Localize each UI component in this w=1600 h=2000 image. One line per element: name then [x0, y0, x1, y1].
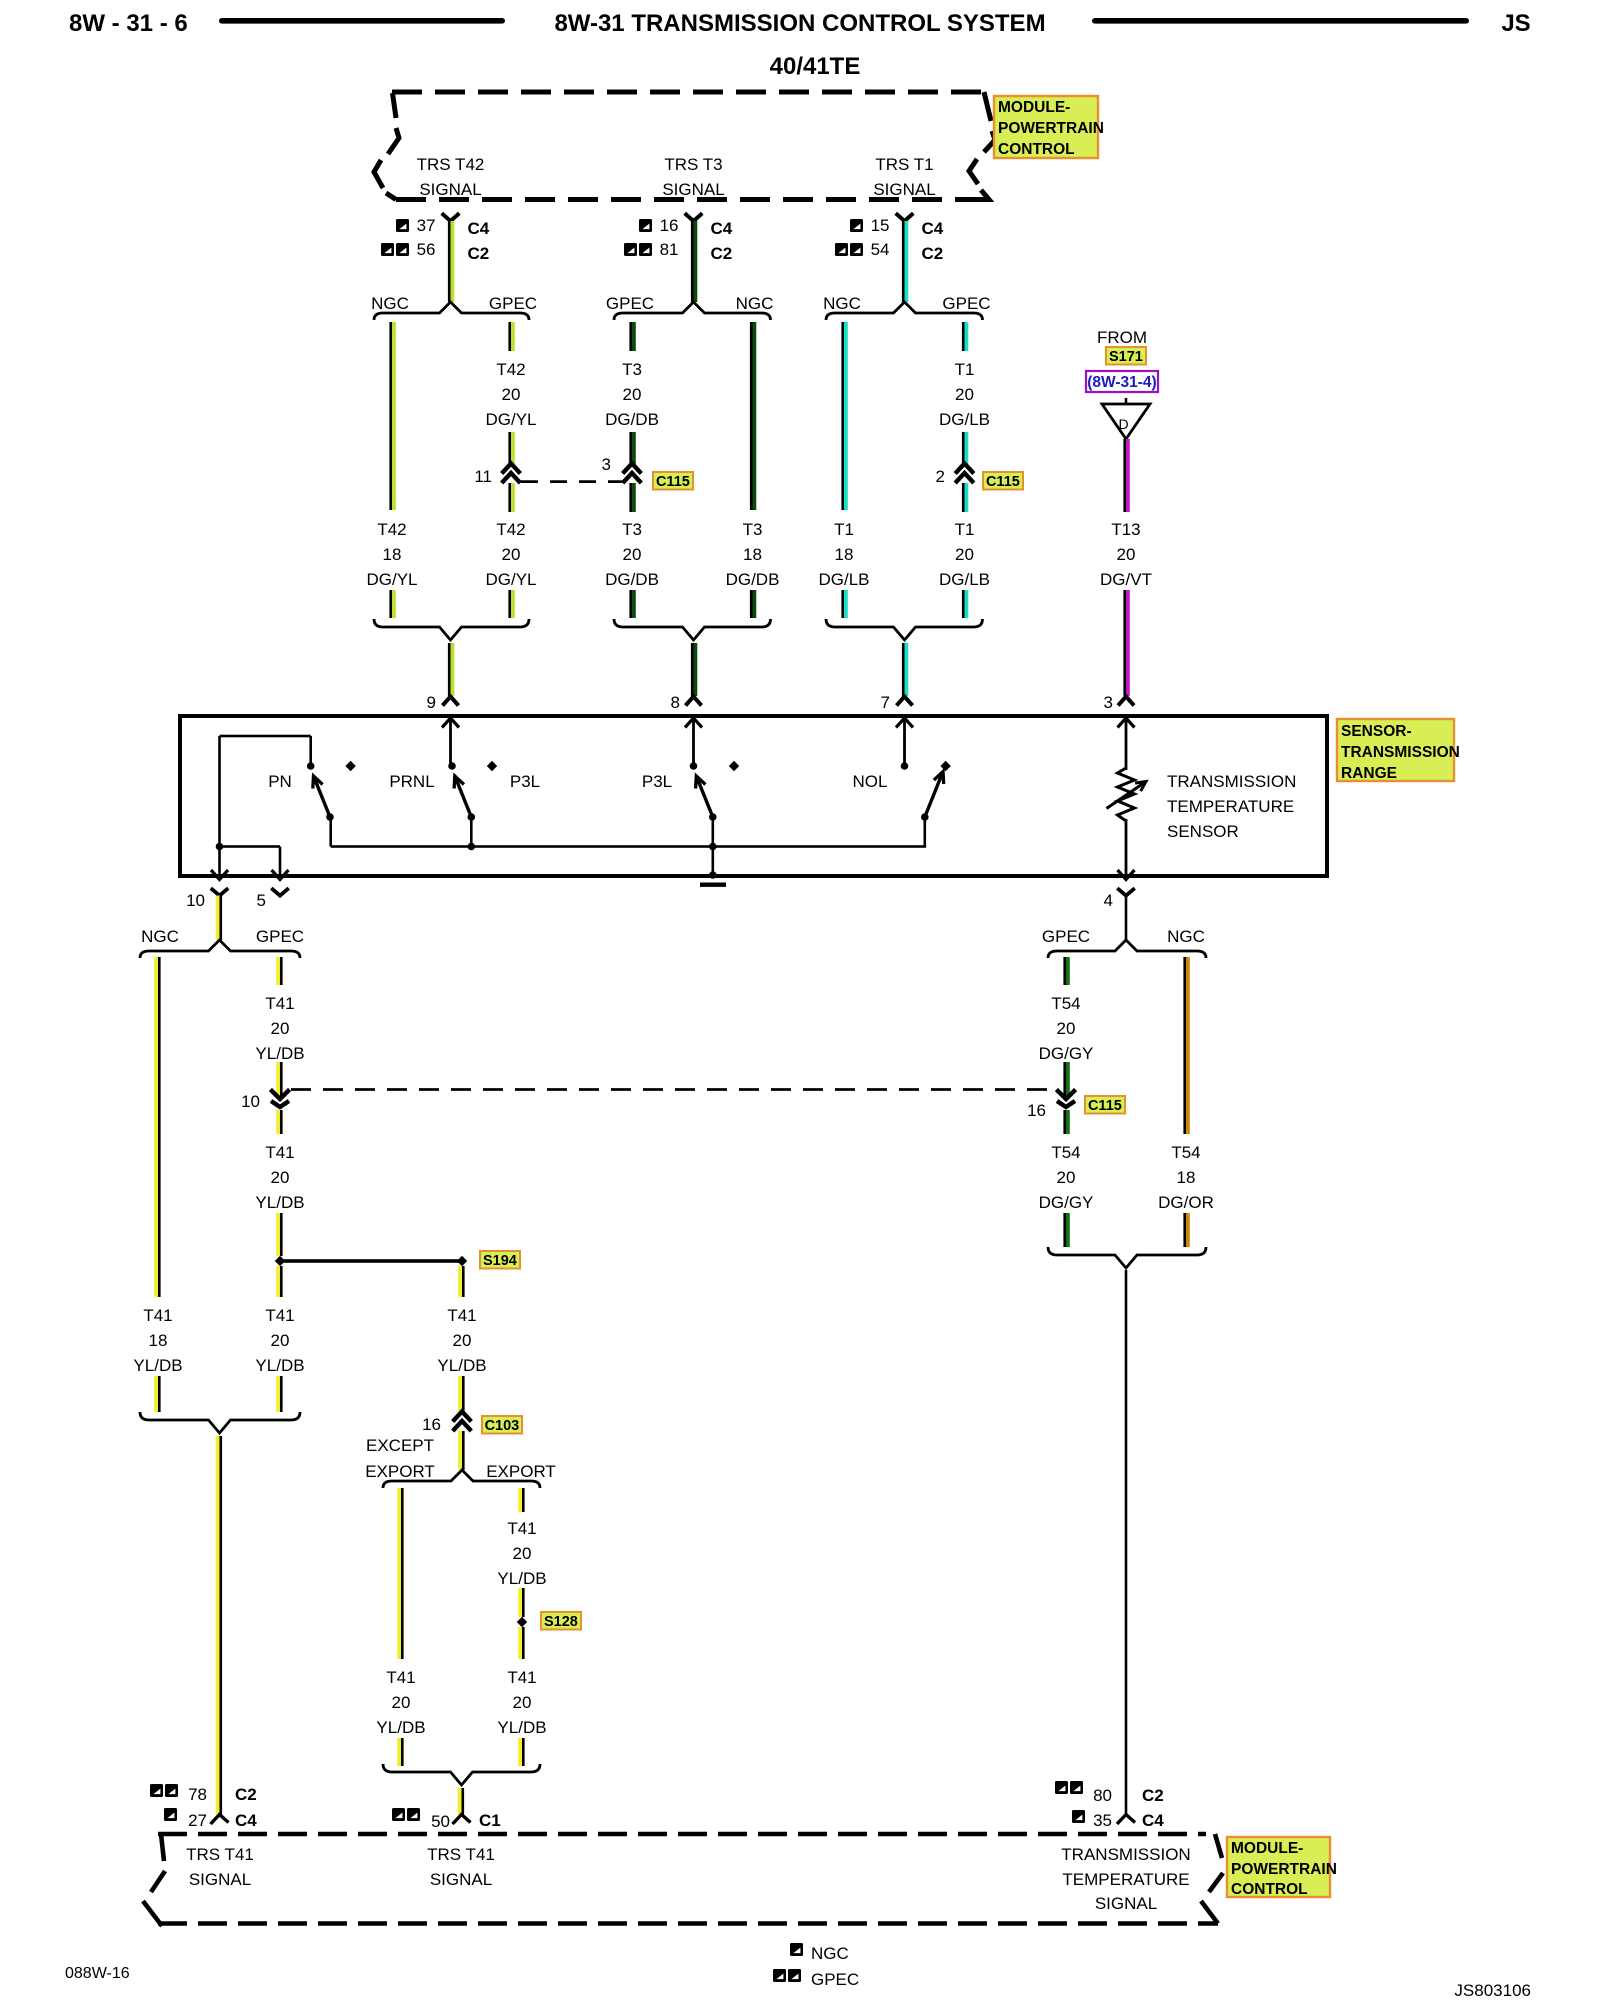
svg-text:NGC: NGC	[141, 927, 179, 946]
merged wire to sensor terminal	[691, 643, 697, 696]
terminal 27 (female)	[211, 1815, 229, 1825]
header code JS	[1501, 10, 1530, 37]
label MODULE-POWERTRAIN CONTROL (bottom)	[1227, 1837, 1337, 1898]
svg-text:RANGE: RANGE	[1341, 765, 1397, 782]
terminal 35 (female)	[1117, 1815, 1135, 1825]
svg-text:TRANSMISSION: TRANSMISSION	[1341, 744, 1460, 761]
label T54 20 DG/GY (upper)	[1039, 994, 1094, 1063]
splice split NGC/GPEC	[823, 294, 990, 320]
svg-text:SIGNAL: SIGNAL	[1095, 1894, 1157, 1913]
page title	[554, 10, 1045, 80]
wire T1 GPEC into C115	[962, 432, 968, 464]
label T41 20 YL/DB (below C115)	[255, 1143, 304, 1212]
wire T41 to C1 terminal 50	[458, 1788, 464, 1815]
svg-text:POWERTRAIN: POWERTRAIN	[1231, 1861, 1337, 1878]
label T41 20 YL/DB (GPEC lower)	[255, 1306, 304, 1375]
svg-text:20: 20	[513, 1693, 532, 1712]
svg-text:T3: T3	[622, 520, 642, 539]
svg-text:T54: T54	[1051, 994, 1080, 1013]
svg-text:8W-31 TRANSMISSION CONTROL SYS: 8W-31 TRANSMISSION CONTROL SYSTEM	[554, 10, 1045, 37]
connector C115 cavity 16	[1027, 1090, 1076, 1121]
svg-text:DG/DB: DG/DB	[605, 410, 659, 429]
svg-text:CONTROL: CONTROL	[1231, 1881, 1308, 1898]
svg-text:GPEC: GPEC	[606, 294, 654, 313]
wire stub left above merge	[629, 590, 635, 618]
svg-text:EXPORT: EXPORT	[365, 1462, 435, 1481]
svg-text:DG/YL: DG/YL	[485, 570, 536, 589]
svg-text:16: 16	[1027, 1101, 1046, 1120]
connector pin 37/56 icons and C4/C2	[381, 216, 490, 263]
svg-text:T54: T54	[1171, 1143, 1200, 1162]
sensor - transmission range (box)	[180, 716, 1327, 876]
svg-text:T41: T41	[143, 1306, 172, 1325]
label TRANSMISSION TEMPERATURE SENSOR	[1167, 772, 1296, 841]
svg-text:TRS T41: TRS T41	[427, 1845, 495, 1864]
footer sheet number	[65, 1965, 130, 1982]
svg-text:54: 54	[871, 240, 890, 259]
node TRANSMISSION TEMPERATURE SIGNAL	[1061, 1845, 1190, 1913]
terminal 3	[1104, 693, 1135, 728]
wire stub export above merge	[518, 1738, 524, 1766]
wire to transmission temperature signal terminal 35	[1125, 1270, 1128, 1815]
label S194	[480, 1251, 520, 1269]
wire T41 to TRS T41 SIGNAL (C2/C4)	[216, 1436, 222, 1815]
svg-text:C115: C115	[986, 474, 1020, 490]
svg-text:088W-16: 088W-16	[65, 1965, 130, 1982]
svg-text:15: 15	[871, 216, 890, 235]
svg-text:NGC: NGC	[371, 294, 409, 313]
svg-text:POWERTRAIN: POWERTRAIN	[998, 120, 1104, 137]
connector pins 80 C2	[1055, 1781, 1164, 1805]
node TRS T41 SIGNAL (left)	[186, 1845, 254, 1889]
wire T41 below S194 (left)	[276, 1266, 282, 1297]
svg-text:P3L: P3L	[510, 772, 540, 791]
svg-text:C103: C103	[485, 1418, 520, 1434]
svg-text:S171: S171	[1109, 349, 1143, 365]
node FROM S171 (8W-31-4)	[1097, 328, 1147, 347]
wire T41 export stub	[518, 1488, 524, 1512]
wire T41 GPEC into C115	[276, 1062, 282, 1096]
wire T3 GPEC below C115	[629, 483, 635, 512]
wire stub GPEC above right merge	[1063, 1213, 1069, 1247]
svg-text:20: 20	[955, 545, 974, 564]
svg-text:50: 50	[431, 1812, 450, 1831]
svg-text:DG/LB: DG/LB	[939, 570, 990, 589]
label S128	[541, 1612, 581, 1630]
wire TRS T42 signal from module	[448, 221, 454, 302]
label EXPORT	[486, 1462, 556, 1481]
splice merge right pair	[1048, 1247, 1206, 1268]
wire T13 from triangle	[1123, 439, 1129, 512]
wire T41 below S128	[518, 1627, 524, 1659]
label T54 18 DG/OR	[1158, 1143, 1214, 1212]
wire T41 below S194 (branch to C103)	[458, 1266, 464, 1297]
svg-text:GPEC: GPEC	[256, 927, 304, 946]
svg-text:20: 20	[271, 1331, 290, 1350]
wire T41 below C103	[458, 1431, 464, 1470]
svg-text:20: 20	[623, 545, 642, 564]
svg-text:C115: C115	[1088, 1098, 1122, 1114]
wire TRS T3 signal from module	[691, 221, 697, 302]
svg-text:DG/GY: DG/GY	[1039, 1193, 1094, 1212]
svg-text:3: 3	[602, 455, 611, 474]
svg-text:YL/DB: YL/DB	[255, 1193, 304, 1212]
terminal (female) at module for TRS T3	[685, 213, 703, 221]
merged wire to sensor terminal	[448, 643, 454, 696]
wire stub GPEC above merge	[276, 1376, 282, 1412]
terminal 5	[257, 870, 289, 910]
label T42 18 DG/YL	[366, 520, 417, 589]
label C115 (T1)	[983, 472, 1023, 490]
svg-text:81: 81	[660, 240, 679, 259]
wire T42 GPEC below C115	[508, 483, 514, 512]
splice merge to single wire	[826, 619, 983, 640]
wire T41 except-export (long)	[397, 1488, 403, 1659]
node TRS T1 SIGNAL (in module)	[873, 155, 935, 199]
contact diamond (NOL alt, at arm tip)	[940, 761, 950, 771]
wire stub right above merge	[750, 590, 756, 618]
wire T3 GPEC into C115	[629, 432, 635, 464]
svg-text:T41: T41	[265, 1143, 294, 1162]
connector C115 cavity 11	[474, 464, 520, 487]
svg-text:JS: JS	[1501, 10, 1530, 37]
label T41 20 YL/DB (export upper)	[497, 1519, 546, 1588]
svg-text:NGC: NGC	[736, 294, 774, 313]
wire T41 export to S128	[518, 1588, 524, 1617]
svg-text:TRANSMISSION: TRANSMISSION	[1167, 772, 1296, 791]
label C115 (lower)	[1085, 1096, 1125, 1114]
svg-text:FROM: FROM	[1097, 328, 1147, 347]
dashed tie between C115 cavities 10 and 16	[291, 1088, 1056, 1091]
svg-text:TRS T1: TRS T1	[875, 155, 933, 174]
connector pin 16/81 icons and C4/C2	[624, 216, 733, 263]
module - powertrain control (top dashed outline)	[374, 92, 995, 200]
label T3 18 DG/DB	[726, 520, 780, 589]
svg-text:T41: T41	[447, 1306, 476, 1325]
svg-text:S128: S128	[544, 1614, 578, 1630]
svg-text:T41: T41	[386, 1668, 415, 1687]
svg-text:35: 35	[1093, 1811, 1112, 1830]
svg-text:C4: C4	[468, 219, 490, 238]
svg-text:C2: C2	[711, 244, 733, 263]
wire stub except-export above merge	[397, 1738, 403, 1766]
svg-text:SIGNAL: SIGNAL	[419, 180, 481, 199]
terminal (female) at module for TRS T1	[896, 213, 914, 221]
svg-text:C2: C2	[468, 244, 490, 263]
svg-text:GPEC: GPEC	[489, 294, 537, 313]
splice split GPEC/NGC	[606, 294, 773, 320]
splice merge to single wire	[374, 619, 529, 640]
svg-text:EXPORT: EXPORT	[486, 1462, 556, 1481]
node P3L label	[510, 772, 540, 791]
wire T13 to sensor terminal 3	[1123, 590, 1129, 696]
svg-text:SENSOR-: SENSOR-	[1341, 723, 1412, 740]
wire T1 GPEC below C115	[962, 483, 968, 512]
svg-text:YL/DB: YL/DB	[255, 1044, 304, 1063]
svg-text:DG/VT: DG/VT	[1100, 570, 1152, 589]
svg-text:80: 80	[1093, 1786, 1112, 1805]
terminal 50 (female)	[453, 1815, 471, 1825]
svg-text:NGC: NGC	[823, 294, 861, 313]
splice split EXCEPT EXPORT / EXPORT	[383, 1470, 540, 1488]
splice split NGC/GPEC (left lower)	[140, 927, 304, 958]
label T41 20 YL/DB (except-export lower)	[376, 1668, 425, 1737]
svg-text:DG/LB: DG/LB	[818, 570, 869, 589]
connector C115 cavity 10	[241, 1090, 290, 1112]
wire TRS T1 GPEC branch upper stub	[962, 322, 968, 351]
svg-text:T3: T3	[622, 360, 642, 379]
svg-text:20: 20	[623, 385, 642, 404]
label T1 18 DG/LB	[818, 520, 869, 589]
connector C115 cavity 2	[936, 464, 974, 487]
svg-text:NGC: NGC	[811, 1944, 849, 1963]
svg-text:JS803106: JS803106	[1454, 1981, 1531, 2000]
svg-text:37: 37	[417, 216, 436, 235]
svg-text:YL/DB: YL/DB	[255, 1356, 304, 1375]
svg-text:T13: T13	[1111, 520, 1140, 539]
splice S128	[517, 1617, 527, 1627]
wire T54 GPEC into C115	[1063, 1062, 1069, 1096]
svg-text:DG/LB: DG/LB	[939, 410, 990, 429]
svg-text:SIGNAL: SIGNAL	[873, 180, 935, 199]
svg-text:MODULE-: MODULE-	[1231, 1840, 1303, 1857]
svg-text:YL/DB: YL/DB	[497, 1718, 546, 1737]
wire stub right above merge	[962, 590, 968, 618]
label T1 20 DG/LB (above C115)	[939, 360, 990, 429]
svg-text:7: 7	[881, 693, 890, 712]
svg-text:T41: T41	[507, 1668, 536, 1687]
splice split GPEC/NGC (right)	[1042, 927, 1206, 958]
transmission temperature sensor (variable resistor)	[1107, 718, 1147, 875]
dashed tie between C115 cavities 11 and 3	[521, 480, 622, 483]
wire TRS T42 GPEC branch upper stub	[508, 322, 514, 351]
svg-text:DG/YL: DG/YL	[366, 570, 417, 589]
splice merge left pair	[140, 1412, 300, 1433]
terminal 10	[186, 870, 228, 910]
terminal 4	[1104, 870, 1135, 925]
wire T54 GPEC below C115	[1063, 1110, 1069, 1134]
header rule left	[219, 18, 505, 24]
label T3 20 DG/DB	[605, 520, 659, 589]
svg-text:10: 10	[241, 1092, 260, 1111]
label C103	[482, 1416, 522, 1434]
wire T41 GPEC below C115	[276, 1110, 282, 1134]
wire stub left above merge	[841, 590, 847, 618]
svg-text:20: 20	[513, 1544, 532, 1563]
wire T41 into C103	[458, 1376, 464, 1412]
svg-text:20: 20	[502, 545, 521, 564]
node TRS T3 SIGNAL (in module)	[662, 155, 724, 199]
svg-text:18: 18	[835, 545, 854, 564]
svg-text:DG/OR: DG/OR	[1158, 1193, 1214, 1212]
svg-text:20: 20	[1117, 545, 1136, 564]
splice merge export pair	[383, 1764, 540, 1785]
off-page triangle D	[1102, 398, 1150, 439]
node TRS T41 SIGNAL (centre)	[427, 1845, 495, 1889]
svg-text:18: 18	[743, 545, 762, 564]
terminal (female) at module for TRS T42	[442, 213, 460, 221]
svg-text:40/41TE: 40/41TE	[770, 53, 861, 80]
label T13 20 DG/VT	[1100, 520, 1152, 589]
switch common bus	[331, 845, 926, 848]
svg-text:16: 16	[422, 1415, 441, 1434]
contact diamond (P3L alt)	[729, 761, 739, 771]
label T41 20 YL/DB (S194 branch)	[437, 1306, 486, 1375]
svg-text:T42: T42	[496, 520, 525, 539]
svg-text:18: 18	[1177, 1168, 1196, 1187]
connector C103 cavity 16	[422, 1412, 471, 1435]
svg-text:C2: C2	[922, 244, 944, 263]
splice split NGC/GPEC	[371, 294, 537, 320]
connector pins 35 C4	[1072, 1810, 1164, 1830]
svg-text:20: 20	[271, 1019, 290, 1038]
svg-text:NGC: NGC	[1167, 927, 1205, 946]
connector pins 78 C2	[150, 1784, 257, 1804]
svg-text:TRS T41: TRS T41	[186, 1845, 254, 1864]
footer drawing number	[1454, 1981, 1531, 2000]
svg-text:GPEC: GPEC	[942, 294, 990, 313]
svg-text:NOL: NOL	[853, 772, 888, 791]
svg-text:TEMPERATURE: TEMPERATURE	[1062, 1870, 1189, 1889]
svg-text:DG/DB: DG/DB	[605, 570, 659, 589]
svg-text:YL/DB: YL/DB	[133, 1356, 182, 1375]
wire TRS T3 NGC branch (18 ga)	[750, 322, 756, 510]
svg-text:TRANSMISSION: TRANSMISSION	[1061, 1845, 1190, 1864]
label T41 20 YL/DB (export lower)	[497, 1668, 546, 1737]
svg-text:D: D	[1118, 416, 1128, 432]
svg-text:T54: T54	[1051, 1143, 1080, 1162]
svg-text:C115: C115	[656, 474, 690, 490]
label C115 (upper)	[653, 472, 693, 490]
label EXCEPT EXPORT	[365, 1436, 435, 1481]
svg-text:YL/DB: YL/DB	[497, 1569, 546, 1588]
wire TRS T1 signal from module	[902, 221, 908, 302]
svg-text:20: 20	[955, 385, 974, 404]
wire T54 18 NGC (long)	[1183, 957, 1189, 1134]
wire T41 from terminal 10	[216, 896, 222, 941]
svg-text:3: 3	[1104, 693, 1113, 712]
svg-text:C4: C4	[922, 219, 944, 238]
svg-text:18: 18	[383, 545, 402, 564]
svg-text:S194: S194	[483, 1253, 517, 1269]
wire stub NGC above merge	[154, 1376, 160, 1412]
svg-text:11: 11	[474, 467, 492, 486]
svg-text:27: 27	[188, 1811, 207, 1830]
wire TRS T3 GPEC branch upper stub	[629, 322, 635, 351]
svg-text:P3L: P3L	[642, 772, 672, 791]
wire stub NGC above right merge	[1183, 1213, 1189, 1247]
svg-text:8: 8	[671, 693, 680, 712]
svg-text:T42: T42	[496, 360, 525, 379]
svg-text:YL/DB: YL/DB	[376, 1718, 425, 1737]
svg-text:T1: T1	[834, 520, 854, 539]
wire T41 GPEC stub	[276, 957, 282, 985]
svg-text:20: 20	[1057, 1019, 1076, 1038]
label T42 20 DG/YL (above C115)	[485, 360, 536, 429]
label MODULE-POWERTRAIN CONTROL (top)	[994, 96, 1104, 158]
svg-text:EXCEPT: EXCEPT	[366, 1436, 434, 1455]
svg-text:20: 20	[392, 1693, 411, 1712]
svg-text:YL/DB: YL/DB	[437, 1356, 486, 1375]
svg-text:C4: C4	[1142, 1811, 1164, 1830]
merged wire to sensor terminal	[902, 643, 908, 696]
connector pins 27 C4	[164, 1808, 257, 1830]
terminal 9	[427, 693, 459, 766]
switch PRNL (label + contact + arm)	[389, 762, 475, 850]
switch P3L (label + contact + arm)	[642, 762, 717, 879]
svg-text:C2: C2	[1142, 1786, 1164, 1805]
case ground stub below box	[700, 883, 726, 887]
switch NOL (label + contact + arm)	[853, 762, 944, 846]
label T1 20 DG/LB	[939, 520, 990, 589]
svg-text:DG/YL: DG/YL	[485, 410, 536, 429]
svg-text:T42: T42	[377, 520, 406, 539]
wire TRS T42 NGC branch (18 ga)	[389, 322, 395, 510]
svg-text:2: 2	[936, 467, 945, 486]
svg-text:20: 20	[271, 1168, 290, 1187]
svg-text:C1: C1	[479, 1811, 501, 1830]
svg-text:SENSOR: SENSOR	[1167, 822, 1239, 841]
svg-text:16: 16	[660, 216, 679, 235]
module - powertrain control (bottom dashed outline)	[143, 1834, 1223, 1926]
svg-text:T3: T3	[743, 520, 763, 539]
svg-text:PN: PN	[268, 772, 292, 791]
connector C115 cavity 3	[602, 455, 642, 483]
wire T41 18 NGC (long)	[154, 957, 160, 1297]
svg-text:10: 10	[186, 891, 205, 910]
wire T41 to splice S194	[276, 1213, 282, 1256]
svg-text:GPEC: GPEC	[1042, 927, 1090, 946]
wire T54 GPEC stub	[1063, 957, 1069, 985]
svg-text:T1: T1	[955, 360, 975, 379]
label T42 20 DG/YL	[485, 520, 536, 589]
wire stub left above merge	[389, 590, 395, 618]
svg-text:C2: C2	[235, 1785, 257, 1804]
label T41 18 YL/DB (NGC)	[133, 1306, 182, 1375]
wire TRS T1 NGC branch (18 ga)	[841, 322, 847, 510]
label T41 20 YL/DB (GPEC upper)	[255, 994, 304, 1063]
label S171	[1106, 347, 1146, 365]
connector pin 15/54 icons and C4/C2	[835, 216, 944, 263]
header rule right	[1092, 18, 1469, 24]
svg-text:9: 9	[427, 693, 436, 712]
contact diamond (PN alt)	[345, 761, 355, 771]
svg-text:4: 4	[1104, 891, 1113, 910]
wire stub right above merge	[508, 590, 514, 618]
contact diamond (P3L)	[487, 761, 497, 771]
svg-text:CONTROL: CONTROL	[998, 141, 1075, 158]
svg-text:20: 20	[502, 385, 521, 404]
splice merge to single wire	[614, 619, 771, 640]
svg-text:GPEC: GPEC	[811, 1970, 859, 1989]
svg-text:DG/DB: DG/DB	[726, 570, 780, 589]
svg-text:8W - 31 - 6: 8W - 31 - 6	[69, 10, 188, 37]
svg-text:SIGNAL: SIGNAL	[430, 1870, 492, 1889]
legend GPEC	[773, 1969, 859, 1989]
label SENSOR-TRANSMISSION RANGE	[1337, 719, 1460, 782]
label T3 20 DG/DB (above C115)	[605, 360, 659, 429]
wire PN common loop	[216, 735, 312, 876]
svg-text:(8W-31-4): (8W-31-4)	[1087, 374, 1156, 391]
svg-text:T1: T1	[955, 520, 975, 539]
svg-text:C4: C4	[711, 219, 733, 238]
svg-text:78: 78	[188, 1785, 207, 1804]
label (8W-31-4) reference	[1086, 371, 1158, 392]
svg-text:T41: T41	[507, 1519, 536, 1538]
svg-text:TRS T3: TRS T3	[664, 155, 722, 174]
terminal 8	[671, 693, 702, 766]
svg-text:TRS T42: TRS T42	[417, 155, 485, 174]
